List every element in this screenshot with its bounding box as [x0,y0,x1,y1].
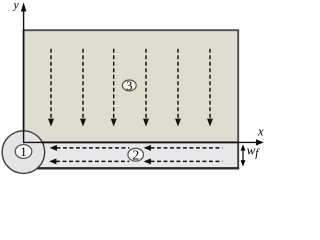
label ellipse 1 [15,145,32,159]
y axis [21,2,27,143]
label ellipse 2 [128,148,144,161]
dashed down-arrow 4 [145,49,147,119]
roller circle [2,131,45,174]
dashed left-arrow row2 right segment [151,160,223,162]
dashed down-arrow 6 [209,49,211,119]
dashed left-arrow row2 left segment [56,160,129,162]
svg-text:2: 2 [132,148,139,163]
svg-text:3: 3 [126,78,133,93]
dashed left-arrow row1 right segment [49,145,222,165]
label ellipse 3 [122,80,136,91]
dashed down-arrow 2 [82,49,84,119]
x axis [23,139,264,145]
dashed down-arrow 5 [177,49,179,119]
svg-text:x: x [257,124,264,138]
dashed down-arrow 3 [113,49,115,119]
dashed down-arrow 1 [48,49,213,127]
region 3 plate (beige rectangle) [24,30,239,142]
region 2 film strip [24,142,239,168]
svg-text:y: y [13,0,20,12]
film strip bottom edge [24,167,240,169]
film thickness dimension arrow [241,144,246,166]
dashed left-arrow row1 left segment [57,147,130,149]
svg-text:1: 1 [20,144,27,159]
